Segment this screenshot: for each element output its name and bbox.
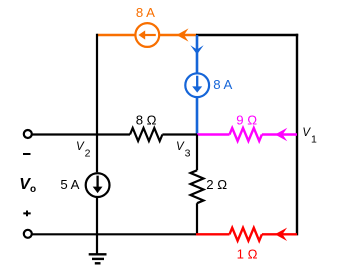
svg-text:2 Ω: 2 Ω [206, 177, 227, 192]
wire left vertical (node V2 branch, x=97) [96, 34, 98, 172]
svg-text:1 Ω: 1 Ω [237, 247, 258, 262]
svg-text:1: 1 [311, 133, 317, 145]
terminal (lower, plus) [24, 230, 32, 238]
wire magenta horizontal (node V3 to 9ohm) [197, 133, 230, 135]
svg-text:8 A: 8 A [213, 77, 232, 92]
svg-text:8 A: 8 A [136, 5, 155, 20]
wire black vertical 2ohm to bottom [196, 203, 198, 235]
resistor 8 ohm [130, 128, 162, 141]
value label 8 ohm [136, 112, 157, 127]
resistor 2 ohm [191, 170, 204, 203]
value label 9 ohm (magenta) [236, 112, 257, 127]
output voltage label Vo [19, 176, 36, 195]
svg-text:9 Ω: 9 Ω [236, 112, 257, 127]
node V1 label [302, 127, 317, 145]
value label 2 ohm [206, 177, 227, 192]
current direction arrow on blue wire (pointing down) [190, 45, 203, 54]
value label 8 A (blue) [213, 77, 232, 92]
terminal (upper, minus) [24, 130, 32, 138]
value label 1 ohm (red) [237, 247, 258, 262]
value label 5 A [60, 177, 79, 192]
current source I2 8A blue [185, 73, 209, 97]
svg-text:8 Ω: 8 Ω [136, 112, 157, 127]
resistor 1 ohm (red) [230, 228, 262, 241]
current source I1 8A orange [135, 23, 159, 47]
wire bottom horizontal black [32, 233, 198, 235]
current direction arrow on red wire (pointing left) [275, 228, 287, 241]
wire bottom red (node to 1ohm) [196, 233, 230, 235]
wire middle horizontal (8ohm to node V3) [162, 133, 197, 135]
wire middle horizontal (terminal to 8ohm) [32, 133, 130, 135]
plus sign [23, 211, 30, 217]
ground [89, 234, 107, 263]
node V2 label [76, 141, 91, 160]
wire bottom red (1ohm to right corner) [262, 233, 297, 235]
wire top-left orange segment [97, 34, 197, 37]
resistor 9 ohm (magenta) [230, 128, 262, 141]
wire left vertical below 5A source [96, 198, 98, 235]
current direction arrow on magenta wire (pointing left) [275, 128, 287, 141]
wire blue vertical from top to node V3 [196, 35, 199, 136]
svg-text:5 A: 5 A [60, 177, 79, 192]
svg-text:3: 3 [185, 148, 191, 160]
current direction arrow on top wire (orange, pointing left) [177, 28, 189, 41]
wire black vertical node V3 down to 2ohm [196, 135, 198, 171]
wire right vertical [296, 34, 298, 236]
svg-text:2: 2 [85, 148, 91, 160]
wire magenta horizontal (9ohm to right wire) [262, 133, 297, 135]
minus sign [23, 153, 31, 155]
current source I3 5A black [86, 173, 110, 197]
wire top-right black segment [196, 34, 298, 36]
svg-text:o: o [30, 184, 36, 195]
value label 8 A (orange) [136, 5, 155, 20]
node V3 label [176, 141, 191, 160]
